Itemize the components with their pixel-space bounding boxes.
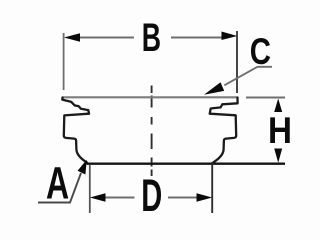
centerline (dash-dot vertical axis of part): [151, 86, 153, 177]
leader A arrowhead: [78, 160, 87, 175]
svg-text:A: A: [46, 158, 69, 209]
dimension D extension line right: [211, 162, 213, 213]
leader line C (underline + diagonal): [224, 67, 272, 86]
dimension H arrowhead up: [274, 99, 282, 113]
svg-text:D: D: [141, 170, 162, 221]
dimension B extension line right: [236, 31, 238, 93]
dimension H arrowhead down: [274, 149, 282, 163]
part outline (grommet cross-section, left and right sides): [62, 98, 89, 163]
part bottom face line + H bottom extension line: [87, 162, 286, 164]
svg-text:C: C: [250, 31, 271, 72]
dimension B extension line left: [63, 33, 65, 90]
part top face line: [63, 96, 238, 98]
svg-text:H: H: [268, 109, 292, 151]
leader line A (underline + diagonal): [38, 173, 81, 203]
dimension D arrowhead right: [197, 193, 213, 202]
dimension B arrowhead right: [222, 32, 238, 41]
leader C arrowhead: [204, 82, 224, 94]
dimension D line (two segments around letter): [104, 197, 199, 199]
dimension B arrowhead left: [64, 33, 80, 41]
dimension D extension line left: [89, 165, 91, 213]
svg-text:B: B: [142, 16, 161, 60]
dimension B line (two segments around letter): [78, 37, 223, 39]
dimension H top extension line: [246, 97, 285, 99]
dimension D arrowhead left: [90, 193, 106, 202]
